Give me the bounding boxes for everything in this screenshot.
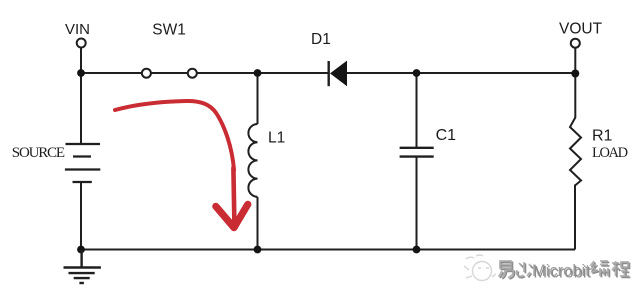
watermark text main layer <box>499 261 630 280</box>
node: ground-rail left junction <box>77 246 85 254</box>
wire: coil bottom to ground rail <box>257 197 259 250</box>
node: C1 top junction <box>413 69 421 77</box>
annotation: red current arrow curve <box>115 101 234 170</box>
svg-text:LOAD: LOAD <box>592 145 628 161</box>
node: VOUT junction <box>571 70 579 78</box>
svg-text:VOUT: VOUT <box>559 21 603 38</box>
svg-text:SOURCE: SOURCE <box>12 145 65 161</box>
wire: VOUT node to resistor top <box>574 73 576 118</box>
wire: resistor bottom to ground rail <box>574 185 576 250</box>
wire: L1 node to coil top <box>257 73 259 124</box>
diode D1 cathode bar <box>328 61 330 86</box>
inductor L1 coil <box>248 124 257 197</box>
battery SOURCE plates <box>65 144 100 182</box>
wire: VOUT terminal stub <box>574 48 576 73</box>
wire: VIN terminal stub <box>80 48 82 74</box>
svg-text:R1: R1 <box>592 128 613 145</box>
diode D1 triangle <box>330 61 347 87</box>
svg-text:C1: C1 <box>436 127 457 144</box>
wire: top rail from VIN node to SW1 <box>81 72 142 74</box>
wire: left rail VIN node to battery top <box>80 73 82 144</box>
resistor R1 zigzag <box>570 118 581 186</box>
terminal VIN circle <box>77 39 86 48</box>
svg-text:L1: L1 <box>268 130 285 147</box>
svg-text:VIN: VIN <box>65 21 90 38</box>
ground symbol <box>64 250 101 284</box>
capacitor C1 plates <box>400 148 434 157</box>
node: L1 top junction <box>254 69 262 77</box>
annotation: red current arrowhead <box>216 204 248 227</box>
wire: SW1 to D1 cathode (through L1 node) <box>197 72 329 74</box>
wire: C1 node to top plate <box>416 73 418 148</box>
watermark logo sketch <box>464 255 496 281</box>
wire: C1 bottom plate to ground rail <box>416 157 418 250</box>
watermark text shadow layer <box>500 262 631 281</box>
wire: D1 anode to VOUT node (through C1 node) <box>347 72 575 74</box>
node: ground-rail L1 junction <box>254 246 262 254</box>
wire: battery bottom to ground rail <box>80 182 82 250</box>
node: VIN junction <box>77 69 85 77</box>
svg-text:D1: D1 <box>311 31 331 48</box>
annotation: red current arrow shaft <box>233 168 234 224</box>
node: ground-rail C1 junction <box>413 246 421 254</box>
svg-text:SW1: SW1 <box>152 22 186 39</box>
wire: between SW1 contacts <box>151 72 188 74</box>
switch SW1 contact circles <box>142 69 197 78</box>
wire: bottom ground rail <box>81 249 575 251</box>
terminal VOUT circle <box>571 39 580 48</box>
